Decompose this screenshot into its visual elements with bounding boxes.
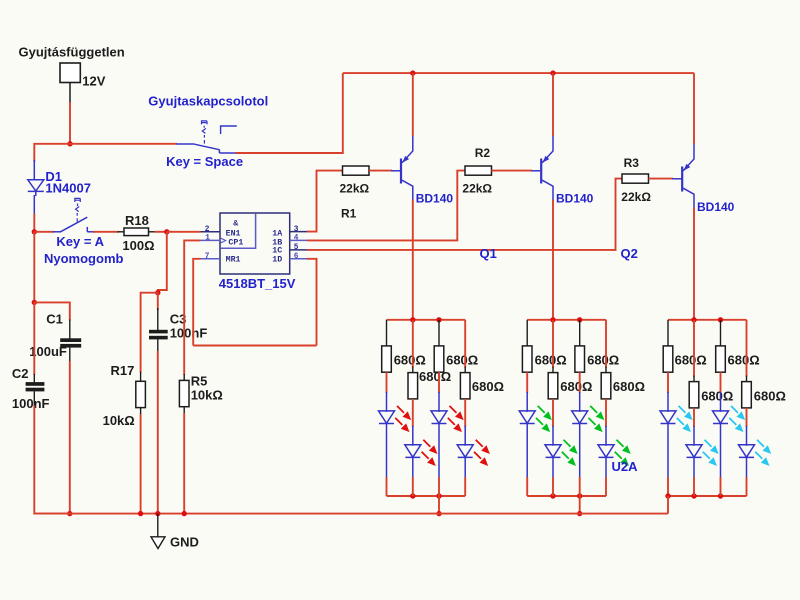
wire IC pin 4 to R2 riser: [307, 171, 466, 241]
wire group1 branch2 top net: [412, 320, 414, 368]
transistor Q2 base lead: [531, 170, 541, 172]
wire R1 to Q1 base: [369, 170, 392, 172]
IC U1 pin 4 stub: [290, 239, 308, 241]
svg-text:680Ω: 680Ω: [472, 379, 504, 394]
wire junction down to C3: [157, 293, 159, 310]
wire D1 column to diode (lead): [33, 160, 35, 180]
switch J2 arm (open): [61, 217, 88, 232]
svg-text:U2A: U2A: [612, 459, 639, 474]
switch J2 key symbol dashes: [75, 198, 81, 221]
wire group3 branch4 top lead: [746, 376, 748, 383]
svg-text:7: 7: [205, 253, 210, 261]
IC U1 pin 2 stub: [200, 231, 221, 233]
wire LED group2 cathode rail: [527, 495, 606, 497]
resistor R17 bottom lead: [140, 408, 142, 415]
wire group1 branch2 top lead: [412, 367, 414, 374]
wire ground bus riser to group3: [667, 496, 669, 514]
node LED group2 anode rail b3: [577, 317, 582, 322]
capacitor C2 plates: [26, 382, 45, 386]
wire group2 branch4 LED top lead: [605, 426, 607, 446]
wire group3 branch2 LED top lead: [693, 426, 695, 446]
svg-text:R17: R17: [111, 363, 135, 378]
capacitor C1 top lead: [69, 320, 71, 339]
wire Q1 emitter to rail: [412, 73, 414, 136]
svg-text:680Ω: 680Ω: [613, 379, 645, 394]
transistor Q3 bar: [681, 167, 683, 192]
switch J1 arm (closed): [194, 144, 219, 150]
wire group3 branch4 LED top lead: [746, 426, 748, 446]
LED group2 branch3 symbol: [572, 411, 588, 424]
wire 12V junction left to D1 column: [34, 144, 70, 162]
node LED group3 anode rail b3: [718, 317, 723, 322]
LED group3 branch3 arrows: [731, 406, 745, 420]
LED group3 branch2 symbol: [686, 445, 702, 458]
wire group3 branch1 to cathode rail: [667, 477, 669, 496]
transistor Q1 emitter arrow: [402, 156, 409, 163]
wire group3 branch2 top net: [693, 320, 695, 377]
wire top rail: [343, 72, 694, 74]
IC U1 pin 3 stub: [290, 231, 308, 233]
resistor R 680ohm group2 branch1 body: [522, 346, 532, 372]
svg-text:680Ω: 680Ω: [754, 388, 786, 403]
transistor Q3 collector: [683, 188, 694, 208]
LED group1 branch2 symbol: [405, 445, 421, 458]
wire group2 branch4 top net: [605, 320, 607, 368]
capacitor C1 plates: [60, 338, 81, 342]
svg-text:10kΩ: 10kΩ: [191, 388, 223, 403]
wire Q3 collector to LED rail: [693, 208, 695, 320]
svg-text:680Ω: 680Ω: [535, 353, 567, 368]
svg-text:680Ω: 680Ω: [587, 353, 619, 368]
wire group1 branch4 LED bottom lead: [464, 457, 466, 477]
wire group3 branch1 resistor to LED: [667, 372, 669, 393]
wire group3 branch3 resistor to LED: [720, 372, 722, 393]
wire group1 branch3 resistor to LED: [438, 372, 440, 393]
LED group2 branch1 arrows: [538, 406, 552, 420]
wire group1 branch1 resistor to LED: [386, 372, 388, 393]
diode D1 cathode lead: [33, 195, 35, 215]
wire junction left to R17: [141, 293, 158, 373]
wire group1 branch3 LED top lead: [438, 392, 440, 412]
wire Q2 collector to LED rail: [552, 200, 554, 320]
wire group1 branch1 LED bottom lead: [386, 424, 388, 478]
wire group3 branch4 LED bottom lead: [746, 457, 748, 477]
node group3 cathode rail left: [665, 493, 670, 498]
wire R3 to Q3 base: [649, 178, 674, 180]
wire group1 branch2 resistor to LED: [412, 399, 414, 427]
resistor R 680ohm group3 branch4 body: [742, 382, 752, 408]
wire group2 branch1 to cathode rail: [526, 477, 528, 496]
transistor Q1 base lead: [391, 170, 401, 172]
switch J2 right contact tick: [86, 227, 88, 232]
wire C1 junction down to C2: [33, 302, 35, 375]
LED group2 branch4 arrows: [617, 440, 631, 454]
LED group3 branch1 symbol: [660, 411, 676, 424]
wire group2 branch2 to cathode rail: [552, 477, 554, 496]
switch J1 left lead: [176, 143, 194, 145]
svg-text:R5: R5: [191, 374, 208, 389]
IC U1 pin 5 stub: [290, 249, 308, 251]
resistor R18 left lead: [118, 231, 125, 233]
resistor R3 body: [622, 174, 649, 183]
LED group3 branch4 arrows: [757, 440, 771, 454]
resistor R5 bottom lead: [183, 407, 185, 414]
resistor R 680ohm group2 branch3 body: [575, 346, 585, 372]
svg-text:Gyujtaskapcsolotol: Gyujtaskapcsolotol: [148, 94, 268, 109]
wire group2 branch4 to cathode rail: [605, 477, 607, 496]
wire junction right to C1: [34, 302, 70, 320]
wire R17 to ground line: [140, 414, 142, 514]
wire group1 cathode rail to ground line: [438, 496, 440, 514]
wire MR net horizontal: [193, 345, 316, 347]
node top rail Q1 emitter: [410, 70, 415, 75]
switch J2 left lead: [53, 231, 61, 233]
node 12V junction: [67, 141, 72, 146]
capacitor C3 bottom lead: [157, 339, 159, 352]
wire group1 branch4 top net: [464, 320, 466, 368]
wire group3 branch2 top lead: [693, 376, 695, 383]
svg-text:10kΩ: 10kΩ: [103, 413, 135, 428]
svg-text:22kΩ: 22kΩ: [621, 190, 651, 204]
wire LED group2 anode rail: [527, 319, 606, 321]
wire ground bus: [34, 513, 668, 515]
wire group2 branch2 top lead: [552, 367, 554, 374]
node top rail Q2 emitter: [550, 70, 555, 75]
node LED group2 anode rail b2: [550, 317, 555, 322]
svg-text:22kΩ: 22kΩ: [340, 182, 370, 196]
voltage source V1 box: [60, 63, 80, 83]
wire group2 branch1 top lead: [526, 320, 528, 347]
svg-text:1D: 1D: [272, 255, 282, 264]
wire C2 to ground line corner: [34, 406, 70, 514]
wire IC pin 5 to R3 riser: [307, 179, 623, 250]
wire group2 branch3 resistor to LED: [579, 372, 581, 393]
capacitor C2 top lead: [33, 374, 35, 382]
svg-text:6: 6: [294, 253, 299, 261]
wire Q3 emitter to rail corner: [693, 73, 695, 144]
resistor R 680ohm group1 branch2 body: [408, 373, 418, 399]
switch J1 contact step: [218, 150, 220, 154]
IC U1 pin 7 stub: [200, 258, 221, 260]
capacitor C3 plates: [149, 330, 168, 334]
wire group3 branch4 top net: [746, 320, 748, 377]
LED group1 branch1 arrows: [397, 406, 411, 420]
resistor R1 body: [343, 166, 370, 175]
wire group3 branch2 to cathode rail: [693, 477, 695, 496]
svg-text:Q2: Q2: [621, 246, 638, 261]
capacitor C3 top lead: [157, 308, 159, 331]
switch J1 right lead: [219, 152, 236, 154]
wire group3 branch1 top lead: [667, 320, 669, 347]
svg-text:680Ω: 680Ω: [394, 353, 426, 368]
node R5 on ground line: [182, 511, 187, 516]
wire group1 branch2 to cathode rail: [412, 477, 414, 496]
node C3/GND on ground line: [155, 511, 160, 516]
ground symbol stem: [157, 514, 159, 537]
wire IC pin 7 riser down: [193, 259, 200, 346]
node LED group1 cathode rail b3: [436, 493, 441, 498]
node group1 on ground line: [436, 511, 441, 516]
wire LED group1 anode rail: [387, 319, 466, 321]
resistor R 680ohm group2 branch2 body: [548, 373, 558, 399]
wire C3 to ground line: [157, 351, 159, 514]
IC U1 pin 1 stub: [200, 239, 221, 241]
wire LED group1 cathode rail: [387, 495, 466, 497]
wire C1 to ground line: [69, 361, 71, 514]
svg-text:680Ω: 680Ω: [728, 353, 760, 368]
resistor R 680ohm group1 branch4 body: [460, 373, 470, 399]
svg-text:Q1: Q1: [480, 246, 497, 261]
wire group1 branch4 LED top lead: [464, 426, 466, 446]
wire R5 to ground line: [183, 413, 185, 514]
svg-text:12V: 12V: [82, 74, 105, 89]
wire V1 lead down: [69, 83, 71, 104]
svg-text:C1: C1: [46, 312, 63, 327]
svg-text:22kΩ: 22kΩ: [462, 182, 492, 196]
transistor Q2 bar: [540, 159, 542, 184]
svg-text:1N4007: 1N4007: [45, 181, 91, 196]
wire group3 branch3 LED top lead: [720, 392, 722, 412]
LED group3 branch4 symbol: [739, 445, 755, 458]
svg-text:C2: C2: [12, 366, 29, 381]
node LED group1 cathode rail b2: [410, 493, 415, 498]
svg-text:BD140: BD140: [416, 191, 454, 205]
wire group3 branch1 LED bottom lead: [667, 424, 669, 478]
wire junction to switch J2: [34, 231, 54, 233]
resistor R 680ohm group1 branch3 body: [434, 346, 444, 372]
svg-text:GND: GND: [170, 535, 199, 550]
wire group2 branch3 LED top lead: [579, 392, 581, 412]
LED group2 branch2 arrows: [564, 440, 578, 454]
wire group3 branch2 resistor to LED: [693, 408, 695, 427]
svg-text:4518BT_15V: 4518BT_15V: [219, 276, 296, 291]
wire IC pin 3 to R1 riser: [307, 171, 343, 232]
node R17 on ground line: [138, 511, 143, 516]
resistor R2 body: [465, 166, 492, 175]
LED group2 branch4 symbol: [598, 445, 614, 458]
LED group3 branch2 arrows: [705, 440, 719, 454]
LED group1 branch3 symbol: [431, 411, 447, 424]
svg-text:R1: R1: [341, 207, 357, 221]
capacitor C2 bottom lead: [33, 391, 35, 406]
svg-text:Key = A: Key = A: [56, 234, 104, 249]
wire group1 branch1 top lead: [386, 320, 388, 347]
resistor R5 body: [179, 380, 189, 406]
wire group2 branch2 top net: [552, 320, 554, 368]
wire group2 branch4 resistor to LED: [605, 399, 607, 427]
wire LED group3 cathode rail: [668, 495, 747, 497]
LED group2 branch2 symbol: [545, 445, 561, 458]
wire group1 branch2 LED bottom lead: [412, 457, 414, 477]
svg-text:MR1: MR1: [226, 256, 241, 265]
IC U1 4518BT_15V body: [220, 213, 290, 274]
wire LED group3 anode rail: [668, 319, 747, 321]
node LED group2 cathode rail b3: [577, 493, 582, 498]
wire group2 branch2 LED bottom lead: [552, 457, 554, 477]
wire R18 to node: [155, 231, 167, 233]
wire group1 branch1 to cathode rail: [386, 477, 388, 496]
LED group3 branch1 arrows: [679, 406, 693, 420]
wire group1 branch4 to cathode rail: [464, 477, 466, 496]
node C3 / R17 junction: [155, 290, 160, 295]
resistor R17 body: [136, 381, 146, 407]
svg-text:BD140: BD140: [697, 200, 735, 214]
svg-text:1C: 1C: [272, 246, 282, 255]
node LED group2 cathode rail b2: [550, 493, 555, 498]
wire group1 branch4 top lead: [464, 367, 466, 374]
svg-text:Key = Space: Key = Space: [166, 154, 243, 169]
wire group2 branch3 to cathode rail: [579, 477, 581, 496]
svg-text:Nyomogomb: Nyomogomb: [44, 251, 124, 266]
svg-text:680Ω: 680Ω: [560, 379, 592, 394]
node group2 on ground line: [577, 511, 582, 516]
wire switch J1 to top rail riser: [236, 73, 343, 153]
LED group1 branch2 arrows: [423, 440, 437, 454]
wire node down jog to C3 net: [158, 232, 167, 293]
wire MR net riser up to pin 6: [307, 259, 317, 346]
transistor Q1 collector: [402, 180, 413, 200]
wire group2 branch2 LED top lead: [552, 426, 554, 446]
wire group1 branch4 resistor to LED: [464, 399, 466, 427]
svg-text:R3: R3: [624, 156, 640, 170]
svg-text:5: 5: [294, 244, 299, 252]
svg-text:R18: R18: [125, 213, 149, 228]
svg-text:100nF: 100nF: [170, 326, 208, 341]
wire D1 cathode down to Key=A node: [33, 214, 35, 232]
transistor Q3 emitter: [683, 143, 694, 171]
switch J1 key symbol dashes: [202, 121, 208, 144]
wire group1 branch3 LED bottom lead: [438, 424, 440, 478]
resistor R 680ohm group3 branch2 body: [689, 382, 699, 408]
svg-text:CP1: CP1: [228, 238, 243, 247]
svg-text:BD140: BD140: [556, 192, 594, 206]
transistor Q1 bar: [400, 159, 402, 184]
resistor R17 top lead: [140, 372, 142, 382]
LED group2 branch1 symbol: [519, 411, 535, 424]
svg-text:&: &: [233, 219, 238, 228]
resistor R 680ohm group1 branch1 body: [382, 346, 392, 372]
transistor Q2 collector: [542, 180, 553, 200]
ground symbol: [151, 537, 165, 549]
wire R2 to Q2 base: [492, 170, 533, 172]
svg-text:Gyujtásfüggetlen: Gyujtásfüggetlen: [19, 45, 125, 60]
resistor R 680ohm group3 branch1 body: [663, 346, 673, 372]
wire Q2 emitter to rail: [552, 73, 554, 136]
svg-text:680Ω: 680Ω: [701, 388, 733, 403]
transistor Q3 emitter arrow: [684, 164, 691, 171]
IC U1 pin 6 stub: [290, 258, 308, 260]
wire group2 branch3 LED bottom lead: [579, 424, 581, 478]
svg-text:680Ω: 680Ω: [446, 353, 478, 368]
LED group1 branch4 symbol: [457, 445, 473, 458]
wire group3 branch1 LED top lead: [667, 392, 669, 412]
capacitor C1 bottom lead: [69, 348, 71, 362]
switch J2 right lead: [87, 231, 94, 233]
wire group3 branch4 resistor to LED: [746, 408, 748, 427]
svg-text:3: 3: [294, 226, 299, 234]
wire IC pin 1 to R5 riser: [184, 240, 200, 375]
wire group1 branch3 top lead: [438, 320, 440, 347]
wire 12V junction to switch J1: [70, 143, 177, 145]
resistor R18 right lead: [149, 231, 156, 233]
wire node to IC pin 2: [167, 231, 201, 233]
node LED group3 cathode rail b3: [718, 493, 723, 498]
wire group1 branch1 LED top lead: [386, 392, 388, 412]
LED group1 branch4 arrows: [476, 440, 490, 454]
node LED group3 anode rail b2: [691, 317, 696, 322]
wire group1 branch2 LED top lead: [412, 426, 414, 446]
node R18 / pin2 / C3 net junction: [164, 229, 169, 234]
LED group3 branch3 symbol: [713, 411, 729, 424]
wire group2 branch1 resistor to LED: [526, 372, 528, 393]
node LED group1 anode rail b3: [436, 317, 441, 322]
IC U1 clock input triangle: [221, 238, 226, 243]
svg-text:2: 2: [205, 226, 210, 234]
LED group1 branch1 symbol: [379, 411, 395, 424]
node LED group1 anode rail b2: [410, 317, 415, 322]
wire D1 node down to C1 junction: [33, 232, 35, 303]
node D1 / switch J2 junction: [32, 229, 37, 234]
resistor R5 top lead: [183, 374, 185, 381]
wire group2 branch4 top lead: [605, 367, 607, 374]
svg-text:100nF: 100nF: [12, 396, 50, 411]
LED group2 branch3 arrows: [590, 406, 604, 420]
transistor Q1 emitter: [402, 135, 413, 163]
wire group2 cathode rail to ground line: [579, 496, 581, 514]
node C1 branch junction: [32, 300, 37, 305]
wire group2 branch1 LED bottom lead: [526, 424, 528, 478]
switch J1 alternate contact bracket: [221, 126, 237, 134]
wire group3 branch2 LED bottom lead: [693, 457, 695, 477]
wire Q1 collector to LED rail: [412, 200, 414, 321]
wire group2 branch1 LED top lead: [526, 392, 528, 412]
wire group3 branch3 LED bottom lead: [720, 424, 722, 478]
svg-text:R2: R2: [475, 146, 491, 160]
wire group3 branch3 top lead: [720, 320, 722, 347]
wire group2 branch3 top lead: [579, 320, 581, 347]
resistor R 680ohm group2 branch4 body: [601, 373, 611, 399]
wire group3 branch3 to cathode rail: [720, 477, 722, 496]
wire group1 branch3 to cathode rail: [438, 477, 440, 496]
IC U1 sub-block divider: [221, 214, 256, 249]
LED group1 branch3 arrows: [450, 406, 464, 420]
wire group2 branch2 resistor to LED: [552, 399, 554, 427]
svg-text:1: 1: [205, 235, 210, 243]
diode D1 symbol: [28, 180, 44, 196]
transistor Q3 base lead: [672, 178, 682, 180]
svg-text:100Ω: 100Ω: [122, 238, 154, 253]
wire group3 branch4 to cathode rail: [746, 477, 748, 496]
node C1 on ground line: [67, 511, 72, 516]
resistor R18 body: [124, 228, 149, 236]
wire V1 to node: [69, 102, 71, 144]
svg-text:680Ω: 680Ω: [675, 353, 707, 368]
wire switch J2 to R18: [93, 231, 119, 233]
wire group2 branch4 LED bottom lead: [605, 457, 607, 477]
node LED group3 cathode rail b2: [691, 493, 696, 498]
transistor Q2 emitter: [542, 135, 553, 163]
resistor R 680ohm group3 branch3 body: [716, 346, 726, 372]
svg-text:4: 4: [294, 235, 299, 243]
transistor Q2 emitter arrow: [543, 156, 550, 163]
